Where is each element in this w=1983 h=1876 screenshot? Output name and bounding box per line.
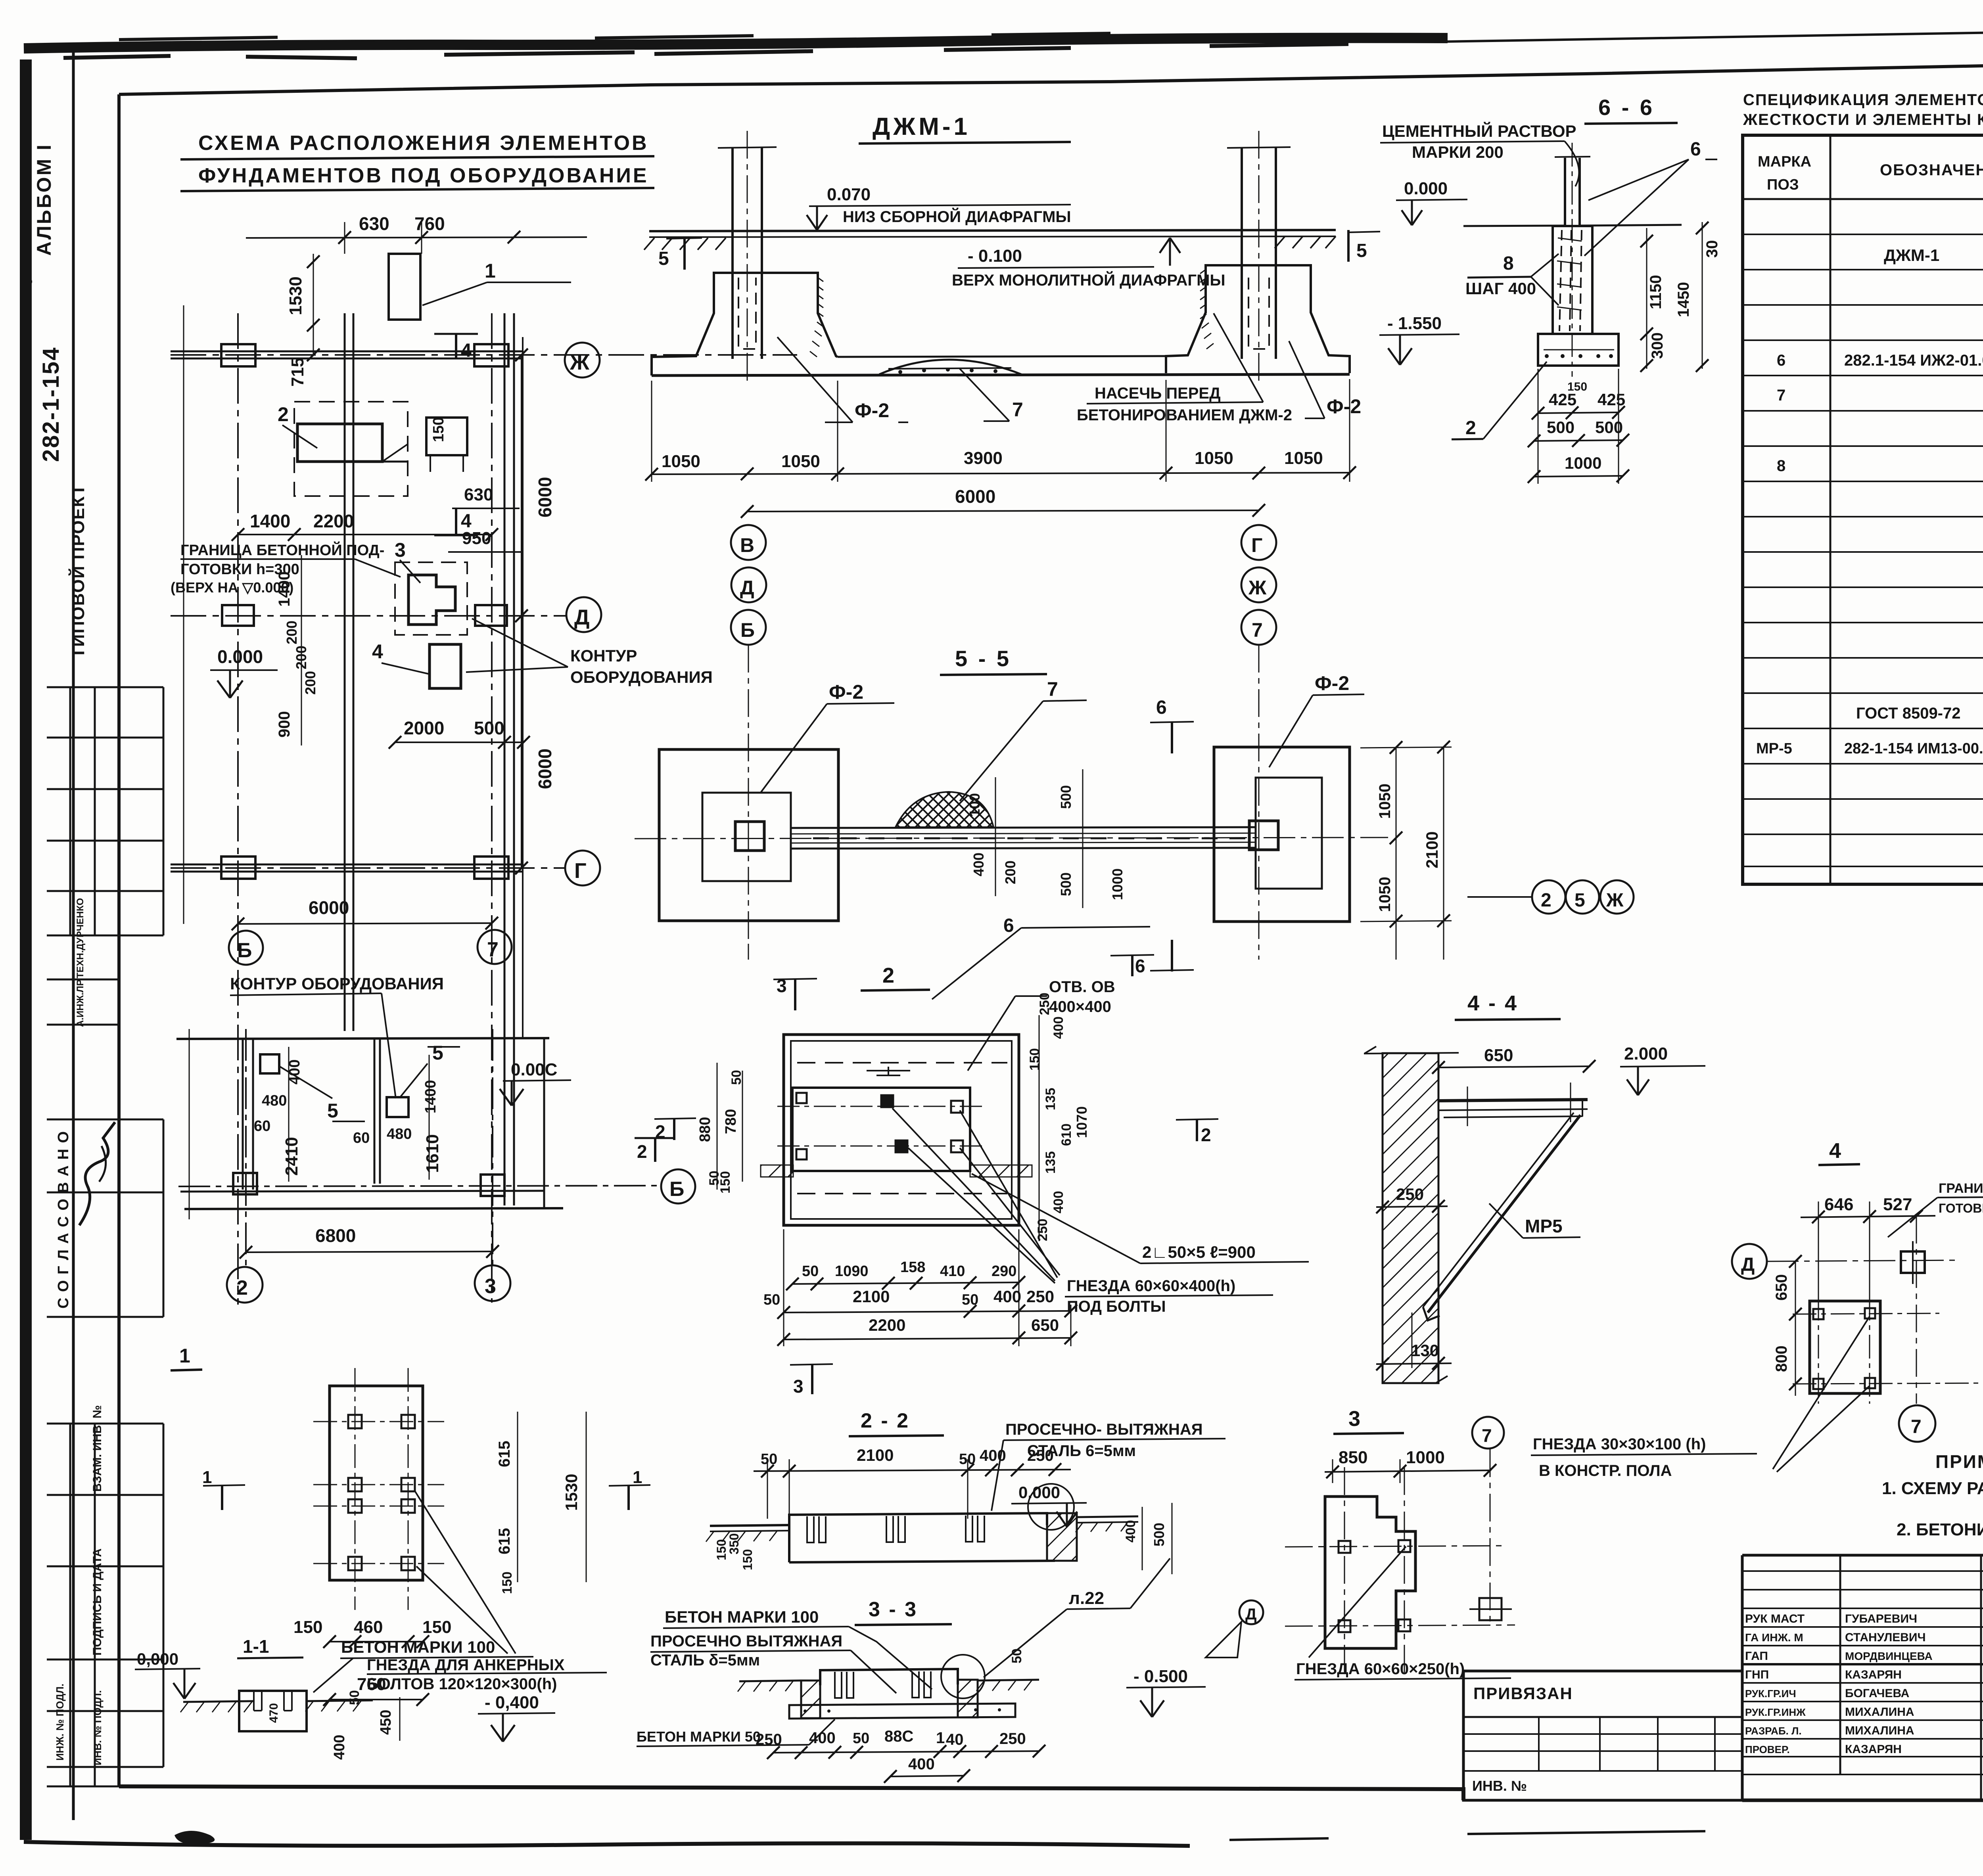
axis circles B Д Б left stack <box>731 525 766 560</box>
svg-text:ЖЕСТКОСТИ И ЭЛЕМЕНТЫ КРЕПЛ: ЖЕСТКОСТИ И ЭЛЕМЕНТЫ КРЕПЛЕНИЯ ОБОРУДОВА… <box>1743 111 1983 128</box>
spec table header row line <box>1743 198 1983 200</box>
axis circle Г <box>565 851 600 885</box>
svg-text:2000: 2000 <box>404 718 444 738</box>
right dim chain 615 615 1530 <box>517 1412 518 1582</box>
svg-text:ГА ИНЖ. М: ГА ИНЖ. М <box>1745 1631 1803 1644</box>
left column <box>731 148 734 359</box>
section flag 4 upper <box>455 333 457 359</box>
svg-text:КАЗАРЯН: КАЗАРЯН <box>1845 1743 1902 1756</box>
3-3 right ground <box>978 1680 1039 1681</box>
svg-text:646: 646 <box>1824 1195 1853 1214</box>
svg-text:КОНТУР: КОНТУР <box>570 646 637 665</box>
svg-text:7: 7 <box>1252 619 1263 641</box>
leaders to gnezda label <box>892 1108 1060 1283</box>
svg-text:- 0.100: - 0.100 <box>968 246 1022 266</box>
svg-text:630: 630 <box>464 485 493 504</box>
svg-text:В КОНСТР. ПОЛА: В КОНСТР. ПОЛА <box>1539 1462 1672 1479</box>
svg-text:ПРОВЕР.: ПРОВЕР. <box>1745 1744 1790 1755</box>
slab outer rect <box>784 1035 1019 1225</box>
sheet frame left lines <box>72 48 75 1820</box>
svg-text:- 1.550: - 1.550 <box>1387 314 1442 333</box>
svg-text:7: 7 <box>1777 387 1785 404</box>
svg-text:6800: 6800 <box>315 1225 356 1246</box>
svg-text:158: 158 <box>900 1259 925 1276</box>
axis circle Б bottom <box>229 931 263 965</box>
svg-text:Ф-2: Ф-2 <box>829 681 863 703</box>
bolts of detail 2 <box>796 1093 963 1159</box>
svg-text:1000: 1000 <box>1565 454 1601 472</box>
right column <box>1241 148 1243 359</box>
left margin form: lower grid <box>47 1424 163 1786</box>
svg-text:1: 1 <box>633 1468 642 1487</box>
svg-text:50: 50 <box>853 1730 869 1747</box>
svg-text:200: 200 <box>284 621 300 644</box>
svg-text:135: 135 <box>1043 1151 1058 1174</box>
title block bottom <box>1742 1799 1983 1802</box>
svg-text:Д: Д <box>1741 1254 1755 1275</box>
svg-text:6: 6 <box>1135 956 1145 976</box>
scan artifact: top torn black band <box>24 33 1448 58</box>
svg-text:БОГАЧЕВА: БОГАЧЕВА <box>1845 1687 1909 1700</box>
svg-text:470: 470 <box>267 1703 280 1723</box>
svg-text:НИЗ СБОРНОЙ ДИАФРАГМЫ: НИЗ СБОРНОЙ ДИАФРАГМЫ <box>843 207 1071 226</box>
svg-text:1: 1 <box>936 1729 945 1747</box>
svg-text:610: 610 <box>1059 1123 1074 1146</box>
svg-text:Д: Д <box>1245 1606 1257 1623</box>
bracket shelf plate <box>1438 1100 1588 1101</box>
svg-text:5 - 5: 5 - 5 <box>955 646 1011 671</box>
axis circle Д <box>1732 1244 1767 1279</box>
sheet frame bottom line <box>119 1786 1463 1800</box>
axis circle 3 <box>475 1265 510 1301</box>
svg-text:1: 1 <box>179 1345 190 1367</box>
svg-text:6000: 6000 <box>955 486 995 507</box>
wall double line right <box>504 313 506 1205</box>
svg-text:650: 650 <box>1031 1316 1059 1334</box>
svg-text:ПРИВЯЗАН: ПРИВЯЗАН <box>1473 1684 1573 1703</box>
svg-text:400: 400 <box>1051 1016 1066 1039</box>
ground line <box>649 230 1336 231</box>
svg-text:150: 150 <box>430 417 447 442</box>
svg-text:400: 400 <box>980 1447 1006 1464</box>
svg-text:50: 50 <box>729 1070 744 1085</box>
svg-text:Ж: Ж <box>1248 577 1267 599</box>
svg-text:РУК МАСТ: РУК МАСТ <box>1745 1612 1805 1625</box>
left extension line <box>183 305 184 924</box>
axis circle Д right of 3-3 <box>1239 1600 1263 1624</box>
svg-text:88C: 88C <box>884 1728 913 1745</box>
scan artifact: bottom torn line <box>24 1842 1190 1846</box>
svg-text:6: 6 <box>1777 352 1785 369</box>
svg-text:1450: 1450 <box>1675 282 1692 317</box>
column above floor <box>1564 158 1566 225</box>
equipment 2 solid body <box>297 424 382 462</box>
right dims 30 1150 1450 300 <box>1646 228 1647 369</box>
svg-text:Д: Д <box>574 606 589 629</box>
scan artifact: thin top edge line to right <box>1444 23 1983 42</box>
beam end bolt left <box>735 822 764 851</box>
svg-text:ПОДПИСЬ И ДАТА: ПОДПИСЬ И ДАТА <box>91 1548 104 1656</box>
svg-text:100: 100 <box>967 793 983 817</box>
svg-text:2200: 2200 <box>869 1316 905 1334</box>
svg-text:2∟50×5 ℓ=900: 2∟50×5 ℓ=900 <box>1142 1243 1256 1261</box>
wall with hatch <box>1383 1053 1438 1383</box>
svg-text:50: 50 <box>761 1451 777 1468</box>
svg-text:СТАЛЬ δ=5мм: СТАЛЬ δ=5мм <box>650 1652 760 1669</box>
axis Д horizontal <box>171 615 566 617</box>
axis dash-dot of detail 3 <box>1285 1546 1507 1547</box>
svg-text:2.000: 2.000 <box>1624 1044 1668 1064</box>
svg-text:1050: 1050 <box>1284 448 1323 468</box>
svg-text:РУК.ГР.ИНЖ: РУК.ГР.ИНЖ <box>1745 1706 1806 1718</box>
ground line with hatch <box>183 1701 254 1702</box>
svg-text:150: 150 <box>718 1171 733 1194</box>
svg-text:400: 400 <box>970 853 987 876</box>
svg-text:650: 650 <box>1484 1046 1513 1065</box>
svg-text:4: 4 <box>1829 1139 1841 1163</box>
svg-text:150: 150 <box>293 1617 322 1637</box>
right edge <box>543 1038 545 1207</box>
svg-text:7: 7 <box>487 938 499 961</box>
svg-text:2: 2 <box>278 403 289 425</box>
svg-text:6: 6 <box>1156 697 1167 718</box>
svg-text:Ф-2: Ф-2 <box>1327 395 1361 418</box>
bolt squares with crosses <box>1339 1540 1410 1632</box>
axis circle 7 below <box>1899 1405 1935 1442</box>
svg-text:250: 250 <box>1037 993 1052 1015</box>
svg-text:ИНЖ. № ПОДЛ.: ИНЖ. № ПОДЛ. <box>54 1684 66 1761</box>
axis 2 vertical <box>245 1029 247 1267</box>
svg-text:400: 400 <box>331 1735 348 1760</box>
equipment 4 rectangle <box>430 644 461 688</box>
svg-text:460: 460 <box>354 1617 383 1637</box>
left inner square <box>702 793 791 881</box>
svg-text:0.000: 0.000 <box>1018 1483 1060 1502</box>
floor line <box>1463 226 1565 226</box>
signature table frame <box>1742 1554 1983 1557</box>
svg-text:760: 760 <box>414 213 445 234</box>
svg-text:300: 300 <box>1649 332 1666 359</box>
svg-text:ГНЕЗДА 60×60×250(h): ГНЕЗДА 60×60×250(h) <box>1296 1660 1465 1678</box>
svg-text:2: 2 <box>1201 1125 1211 1145</box>
svg-text:7: 7 <box>1911 1416 1922 1437</box>
svg-text:ОБОЗНАЧЕНИЕ: ОБОЗНАЧЕНИЕ <box>1880 161 1983 179</box>
svg-text:Д: Д <box>740 577 754 599</box>
svg-text:Б: Б <box>237 939 252 962</box>
svg-text:6000: 6000 <box>535 749 555 789</box>
ground hatch right <box>1275 236 1336 248</box>
svg-text:500: 500 <box>474 718 504 738</box>
sheet frame top line <box>119 56 1983 94</box>
axis square symbol right <box>1479 1598 1502 1620</box>
svg-text:50: 50 <box>763 1292 780 1308</box>
svg-text:250: 250 <box>1027 1447 1054 1464</box>
svg-text:250: 250 <box>1026 1287 1054 1306</box>
svg-text:135: 135 <box>1043 1088 1058 1110</box>
svg-text:1050: 1050 <box>1376 877 1394 912</box>
svg-text:ВЕРХ МОНОЛИТНОЙ ДИАФРАГМЫ: ВЕРХ МОНОЛИТНОЙ ДИАФРАГМЫ <box>952 271 1225 289</box>
svg-text:БЕТОН МАРКИ 50: БЕТОН МАРКИ 50 <box>637 1728 761 1745</box>
svg-text:2 - 2: 2 - 2 <box>861 1409 910 1432</box>
svg-text:50: 50 <box>1009 1648 1024 1663</box>
axis circle 7 <box>1472 1417 1504 1449</box>
svg-text:715: 715 <box>288 358 307 387</box>
column squares at axis intersections <box>221 344 508 879</box>
svg-text:Ф-2: Ф-2 <box>1315 672 1349 694</box>
svg-text:40: 40 <box>946 1731 964 1748</box>
axis 3 vertical <box>492 1029 493 1265</box>
svg-text:1: 1 <box>485 260 496 282</box>
svg-text:1000: 1000 <box>1109 868 1126 900</box>
axis circles Г Ж 7 right stack <box>1241 525 1276 560</box>
svg-text:800: 800 <box>1773 1345 1790 1372</box>
svg-text:А.ИНЖ.ЛР.ТЕХН.ДУРЧЕНКО: А.ИНЖ.ЛР.ТЕХН.ДУРЧЕНКО <box>75 898 86 1027</box>
right foundation F-2 body <box>1166 265 1350 373</box>
svg-text:ПРИМЕЧАНИЯ: ПРИМЕЧАНИЯ <box>1935 1451 1983 1472</box>
svg-text:150: 150 <box>500 1571 515 1594</box>
svg-text:ИНВ. №: ИНВ. № <box>1472 1778 1527 1794</box>
svg-text:50: 50 <box>802 1263 819 1280</box>
svg-text:ПОД БОЛТЫ: ПОД БОЛТЫ <box>1067 1298 1166 1315</box>
svg-text:ВЗАМ. ИНВ. №: ВЗАМ. ИНВ. № <box>91 1405 104 1492</box>
left margin form: upper grid <box>47 687 163 935</box>
foundation block 1-1 <box>239 1691 307 1731</box>
svg-text:1090: 1090 <box>835 1263 869 1280</box>
svg-text:Ф-2: Ф-2 <box>855 399 889 422</box>
svg-text:400×400: 400×400 <box>1049 998 1111 1016</box>
svg-text:400: 400 <box>1051 1191 1066 1213</box>
plan top edge <box>176 1038 549 1039</box>
left dims 650 800 <box>1795 1261 1796 1396</box>
3-3 right hatched wall <box>958 1680 978 1717</box>
right inner square <box>1256 778 1322 889</box>
section flag 2 right <box>654 1137 656 1162</box>
svg-text:ГНП: ГНП <box>1745 1668 1769 1681</box>
svg-text:Ж: Ж <box>1606 890 1624 911</box>
axis line 6 vertical <box>237 313 239 1305</box>
axis Б horizontal <box>178 1186 660 1186</box>
bolt axis lines <box>355 1368 356 1610</box>
svg-text:400: 400 <box>809 1729 836 1747</box>
vertical axes of squares <box>748 944 749 960</box>
svg-text:50: 50 <box>347 1690 362 1705</box>
svg-text:250: 250 <box>1035 1219 1050 1241</box>
svg-text:2: 2 <box>236 1276 248 1299</box>
bolt squares (8) <box>348 1415 415 1570</box>
bottom edge <box>184 1208 563 1209</box>
svg-text:150: 150 <box>422 1617 451 1637</box>
svg-text:5: 5 <box>327 1100 338 1122</box>
svg-text:С О Г Л А С О В А Н О: С О Г Л А С О В А Н О <box>55 1131 72 1309</box>
svg-text:250: 250 <box>756 1731 782 1748</box>
svg-text:4 - 4: 4 - 4 <box>1467 991 1518 1015</box>
channel dowels <box>807 1516 826 1543</box>
svg-text:780: 780 <box>723 1109 739 1134</box>
vertical dim 6000 x2 <box>521 355 522 868</box>
svg-text:ТИПОВОЙ ПРОЕКТ: ТИПОВОЙ ПРОЕКТ <box>68 484 88 658</box>
svg-text:0.070: 0.070 <box>827 185 871 204</box>
svg-text:500: 500 <box>1058 785 1074 809</box>
svg-text:250: 250 <box>999 1730 1026 1748</box>
equipment 3 solid stepped body <box>408 575 455 625</box>
svg-text:0,000: 0,000 <box>137 1650 178 1668</box>
svg-text:ДЖМ-1: ДЖМ-1 <box>873 113 970 140</box>
svg-text:150: 150 <box>1567 380 1587 393</box>
diagonal brace МР5 <box>1428 1115 1580 1313</box>
svg-text:МР5: МР5 <box>1525 1216 1563 1236</box>
svg-text:4: 4 <box>461 340 472 361</box>
svg-text:1050: 1050 <box>781 452 820 471</box>
axis square on Д axis <box>1901 1251 1925 1273</box>
center marks <box>867 1067 910 1075</box>
svg-text:500: 500 <box>1547 418 1575 437</box>
svg-text:1400: 1400 <box>422 1080 439 1113</box>
svg-text:6: 6 <box>1003 915 1014 936</box>
svg-text:(ВЕРХ НА ▽0.000): (ВЕРХ НА ▽0.000) <box>171 579 293 596</box>
svg-text:6: 6 <box>1690 139 1701 160</box>
section flag 4 lower <box>455 508 457 536</box>
svg-text:4: 4 <box>372 640 383 663</box>
svg-text:КАЗАРЯН: КАЗАРЯН <box>1845 1668 1902 1681</box>
svg-text:2: 2 <box>882 964 894 987</box>
svg-text:150: 150 <box>740 1549 755 1570</box>
svg-text:6000: 6000 <box>309 897 349 918</box>
right support block with hatch <box>1047 1513 1077 1561</box>
svg-text:200: 200 <box>302 671 318 695</box>
svg-text:1530: 1530 <box>562 1474 581 1511</box>
svg-text:615: 615 <box>496 1528 513 1554</box>
svg-text:- 0,400: - 0,400 <box>485 1693 539 1712</box>
svg-text:1070: 1070 <box>1074 1106 1090 1138</box>
svg-text:1150: 1150 <box>1647 275 1665 309</box>
svg-text:527: 527 <box>1883 1195 1912 1214</box>
svg-text:ГОСТ 8509-72: ГОСТ 8509-72 <box>1856 705 1961 722</box>
2-2 slab body <box>789 1513 1047 1525</box>
svg-text:2: 2 <box>1541 890 1551 911</box>
svg-text:Б: Б <box>740 619 755 641</box>
axis circle Ж <box>565 343 600 377</box>
equipment 1 rectangle <box>389 254 420 320</box>
svg-text:1050: 1050 <box>1376 784 1394 819</box>
pedestal with fill <box>1553 226 1592 334</box>
svg-text:282-1-154: 282-1-154 <box>38 347 64 462</box>
svg-text:ЦЕМЕНТНЫЙ РАСТВОР: ЦЕМЕНТНЫЙ РАСТВОР <box>1382 121 1576 140</box>
svg-text:МАРКА: МАРКА <box>1758 153 1811 170</box>
svg-text:150: 150 <box>1027 1048 1042 1071</box>
svg-text:2100: 2100 <box>853 1287 890 1306</box>
svg-text:630: 630 <box>359 213 389 234</box>
svg-text:1050: 1050 <box>662 452 700 471</box>
svg-text:900: 900 <box>276 711 293 738</box>
beam end bolt right <box>1249 821 1278 850</box>
svg-text:5: 5 <box>432 1042 443 1064</box>
bolts <box>1813 1308 1875 1389</box>
axis Ж horizontal with wall <box>171 351 524 353</box>
diagonal leader inside <box>1309 1546 1406 1658</box>
ПРИВЯЗАН box <box>1463 1671 1742 1800</box>
svg-text:ГОТОВКИ h=300 (ВЕРХ НА▽0.000): ГОТОВКИ h=300 (ВЕРХ НА▽0.000) <box>1939 1201 1983 1215</box>
spec table column lines <box>1830 135 1831 884</box>
svg-text:5: 5 <box>1575 890 1585 911</box>
svg-text:7: 7 <box>1012 399 1023 421</box>
axis line 7 vertical <box>491 313 493 1303</box>
svg-text:6 - 6: 6 - 6 <box>1598 95 1655 120</box>
svg-text:ОТВ. ОВ: ОТВ. ОВ <box>1049 978 1115 996</box>
svg-text:1610: 1610 <box>423 1134 442 1173</box>
3-3 slab body <box>820 1669 958 1685</box>
svg-text:БОЛТОВ 120×120×300(h): БОЛТОВ 120×120×300(h) <box>367 1675 557 1693</box>
svg-text:282-1-154 ИМ13-00.00: 282-1-154 ИМ13-00.00 <box>1844 740 1983 757</box>
3-3 left hatched wall <box>801 1681 820 1718</box>
svg-text:1400: 1400 <box>276 571 293 607</box>
svg-text:60: 60 <box>254 1118 270 1134</box>
svg-text:200: 200 <box>1002 860 1018 884</box>
beam between foundations <box>791 827 1256 828</box>
svg-text:3 - 3: 3 - 3 <box>869 1598 918 1621</box>
svg-text:БЕТОНИРОВАНИЕМ ДЖМ-2: БЕТОНИРОВАНИЕМ ДЖМ-2 <box>1077 406 1292 424</box>
svg-text:ДЖМ-1: ДЖМ-1 <box>1884 246 1939 264</box>
svg-text:ИНВ. № ПОДЛ.: ИНВ. № ПОДЛ. <box>92 1690 104 1765</box>
svg-text:850: 850 <box>1339 1448 1367 1467</box>
svg-text:СХЕМА РАСПОЛОЖЕНИЯ ЭЛЕМЕНТОВ: СХЕМА РАСПОЛОЖЕНИЯ ЭЛЕМЕНТОВ <box>198 132 649 155</box>
svg-text:3: 3 <box>793 1376 804 1397</box>
anchor plate rectangle <box>330 1386 423 1580</box>
svg-text:КОНТУР ОБОРУДОВАНИЯ: КОНТУР ОБОРУДОВАНИЯ <box>230 974 444 993</box>
svg-text:3: 3 <box>395 539 406 561</box>
svg-text:282.1-154 ИЖ2-01.00: 282.1-154 ИЖ2-01.00 <box>1844 352 1983 369</box>
svg-text:ГНЕЗДА ДЛЯ АНКЕРНЫХ: ГНЕЗДА ДЛЯ АНКЕРНЫХ <box>367 1656 565 1674</box>
svg-text:950: 950 <box>462 529 491 548</box>
left margin form: middle rows <box>47 979 163 1317</box>
svg-text:500: 500 <box>1151 1523 1167 1546</box>
left margin signature squiggle <box>79 1122 115 1225</box>
svg-text:АЛЬБОМ I: АЛЬБОМ I <box>33 143 55 256</box>
stepped plate of detail 3 <box>1325 1497 1415 1648</box>
svg-text:Г: Г <box>1251 534 1262 556</box>
axis circle Д <box>566 597 601 632</box>
axis circle 7 bottom <box>478 930 512 964</box>
svg-text:ГНЕЗДА 60×60×400(h): ГНЕЗДА 60×60×400(h) <box>1067 1277 1235 1295</box>
svg-text:5: 5 <box>1356 240 1367 261</box>
svg-text:2100: 2100 <box>857 1446 894 1464</box>
svg-text:0.000: 0.000 <box>1404 179 1448 198</box>
svg-text:МИХАЛИНА: МИХАЛИНА <box>1845 1724 1914 1737</box>
equipment 3 dashed stepped contour <box>395 562 467 635</box>
vertical axis 7 to circle <box>1916 1216 1917 1404</box>
svg-text:2200: 2200 <box>313 511 354 531</box>
svg-text:400: 400 <box>1123 1520 1138 1543</box>
svg-text:480: 480 <box>262 1092 287 1109</box>
svg-text:Г: Г <box>574 859 587 883</box>
svg-text:л.22: л.22 <box>1069 1589 1104 1608</box>
svg-text:ПОЗ: ПОЗ <box>1767 176 1799 193</box>
ground hatch left <box>644 238 726 250</box>
svg-text:ГНЕЗДА 30×30×100 (h): ГНЕЗДА 30×30×100 (h) <box>1533 1435 1706 1453</box>
svg-text:НАСЕЧЬ ПЕРЕД: НАСЕЧЬ ПЕРЕД <box>1095 385 1221 402</box>
axis circle 2 <box>227 1267 263 1303</box>
footing <box>1538 334 1619 366</box>
svg-text:2. БЕТОНИРОВАНИЕ ВЕСТИ В СОО: 2. БЕТОНИРОВАНИЕ ВЕСТИ В СООТВЕТСТВИИ СО… <box>1897 1520 1983 1539</box>
left foundation F-2 body <box>652 273 838 376</box>
svg-text:425: 425 <box>1598 390 1625 409</box>
svg-text:1-1: 1-1 <box>243 1636 269 1657</box>
svg-text:ПРОСЕЧНО- ВЫТЯЖНАЯ: ПРОСЕЧНО- ВЫТЯЖНАЯ <box>1005 1421 1203 1438</box>
equipment small block right <box>426 418 467 455</box>
svg-text:615: 615 <box>496 1441 513 1467</box>
scan artifact: left torn black bar <box>20 59 32 1840</box>
2-2 right dims <box>1142 1507 1143 1570</box>
signature rows <box>1742 1571 1983 1774</box>
